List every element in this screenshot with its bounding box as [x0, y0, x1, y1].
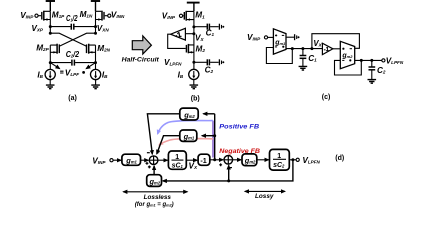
block gm2 [242, 154, 257, 166]
svg-text:gm2: gm2 [341, 53, 353, 60]
node tap at gm1 level [213, 134, 216, 137]
transistor M1P [35, 11, 50, 27]
svg-text:sC1: sC1 [172, 162, 184, 169]
wire gm2 to 1/sC2 [257, 159, 269, 161]
node VLPFN [192, 61, 195, 64]
capacitor C2 [369, 60, 376, 79]
sign plus left-bottom of sum2 [219, 163, 222, 166]
wire sum1 to 1/sC1 [158, 159, 168, 161]
node C1 tap [192, 25, 195, 28]
block arrow Half-Circuit [132, 36, 151, 54]
wire into gm1 fb block [202, 135, 215, 137]
positive feedback path (blue) [212, 121, 214, 158]
svg-text:-1: -1 [324, 47, 330, 53]
wire VX down [193, 27, 195, 46]
node C2 tap [370, 59, 373, 62]
ac terminal after C2 [219, 59, 224, 65]
sign plus left of sum1 [146, 162, 149, 165]
input terminal [264, 36, 267, 39]
block gm2 bottom feedback [147, 175, 162, 187]
VDD rail right [91, 1, 100, 11]
summing node 1 [149, 156, 158, 165]
block -1 [198, 154, 210, 165]
wire source to ground [193, 80, 195, 85]
block 1/sC2 [270, 149, 290, 170]
span arrow Lossy [245, 190, 285, 192]
transistor M2P [50, 44, 59, 63]
sign minus bottom of sum2 [229, 167, 232, 169]
wire into gm2 fb block [203, 113, 214, 115]
block gm1 [122, 154, 141, 165]
current source IB right [91, 69, 101, 79]
wire input to gm1 [113, 159, 121, 161]
svg-text:(b): (b) [191, 95, 200, 102]
wire -1 to gm2 [333, 48, 340, 50]
sign minus top-left of sum1 [147, 152, 150, 154]
amplifier -1 [171, 28, 194, 40]
node VX [310, 47, 313, 50]
transistor M1 [179, 11, 194, 27]
wire gm1 top output [286, 36, 294, 38]
wire -1 output to M2 gate [168, 34, 186, 48]
bottom feedback wire [163, 160, 293, 181]
node C1 tap [301, 47, 304, 50]
svg-text:Half-Circuit: Half-Circuit [122, 57, 160, 63]
node fb tap [213, 158, 216, 161]
sign plus bottom of sum1 [148, 165, 151, 168]
block 1/sC1 [168, 151, 186, 169]
svg-text:(c): (c) [322, 94, 331, 101]
svg-text:C1/2: C1/2 [66, 14, 78, 23]
wire gm2 fb to sum1 [147, 114, 179, 154]
summing node 2 [224, 156, 233, 165]
capacitor C2 [194, 59, 219, 65]
amplifier -1 [322, 43, 333, 54]
ground left [46, 85, 55, 89]
output terminal [296, 158, 299, 161]
svg-text:gm1: gm1 [274, 39, 286, 46]
svg-text:sC2: sC2 [273, 162, 285, 169]
wire left source to ground [49, 80, 51, 85]
current source IB left [45, 69, 55, 79]
output terminal VLPFN [382, 59, 385, 62]
VDD rail left [46, 1, 55, 11]
wire gm1 fb to sum1 [157, 136, 180, 154]
svg-text:C2/2: C2/2 [66, 50, 80, 59]
wire to current source [193, 62, 195, 69]
node bottom tap [227, 179, 230, 182]
annotation arrow right [86, 63, 94, 68]
svg-text:(a): (a) [68, 95, 77, 102]
ota gm1 [273, 29, 286, 54]
ac terminal after C1 [219, 24, 224, 30]
current source IB [189, 69, 199, 79]
span arrow Lossless [123, 191, 187, 193]
ground right [91, 85, 100, 89]
wire cross-couple VXN to M2P gate [59, 27, 97, 47]
svg-text:(for gm1 = gm2): (for gm1 = gm2) [135, 202, 174, 208]
input terminal [110, 159, 113, 162]
wire -1 to sum2 [210, 159, 223, 161]
annotation arrow left [51, 63, 59, 68]
svg-text:-1: -1 [200, 156, 206, 165]
node VXN [94, 25, 97, 28]
svg-text:Lossless: Lossless [144, 194, 172, 201]
ota gm2 [340, 41, 354, 68]
capacitor C1 [300, 49, 307, 67]
node gm2 fb tap [360, 59, 363, 62]
wire left tail to source [49, 63, 51, 70]
wire gm1 to sum1 [141, 159, 149, 161]
svg-text:Lossy: Lossy [255, 193, 274, 200]
capacitor C1/2 [50, 24, 95, 30]
label = VLPF dot [60, 69, 85, 78]
wire 1/sC2 to output [289, 159, 296, 161]
block gm1 mid feedback [180, 130, 197, 141]
node right tail [94, 61, 97, 64]
sign plus top-right of sum1 [156, 150, 159, 153]
transistor M2N [87, 44, 96, 63]
wire sum2 to gm2 [233, 159, 241, 161]
VDD rail [187, 3, 200, 12]
block gm2 top feedback [180, 108, 198, 120]
top loop VX to gm2 output [312, 34, 360, 49]
capacitor C1 [194, 24, 219, 30]
node left tail [49, 61, 52, 64]
node VXP [49, 25, 52, 28]
transistor M1N [96, 11, 111, 27]
wire input to gm1 [268, 36, 274, 38]
node gm1 fb tap [291, 47, 294, 50]
node VX [192, 32, 195, 35]
ground C1 [299, 66, 308, 70]
transistor M2 [186, 44, 194, 62]
ac terminal gm1 [295, 34, 300, 40]
feedback loop gm1 [266, 48, 292, 64]
ground [190, 85, 199, 89]
svg-text:(d): (d) [335, 155, 344, 162]
wire cross-couple VXP to M2N gate [49, 27, 87, 47]
wire right tail to source [95, 63, 97, 70]
wire 1/sC1 to -1 [186, 159, 197, 161]
wire tap up to fb blocks [214, 114, 216, 160]
wire bottom tap to sum2 [228, 165, 230, 181]
wire gm2 bottom to sum1 [153, 166, 155, 175]
feedback loop gm2 [335, 60, 362, 75]
capacitor C2/2 [50, 60, 95, 66]
wire right source to ground [95, 80, 97, 85]
wire gm1 output to VX [286, 48, 322, 50]
negative feedback path (red) [159, 138, 213, 144]
svg-text:Positive FB: Positive FB [219, 123, 259, 130]
wire gm2 output to VLPFN [355, 59, 382, 61]
ground C2 [368, 80, 377, 84]
node output tap [291, 158, 294, 161]
